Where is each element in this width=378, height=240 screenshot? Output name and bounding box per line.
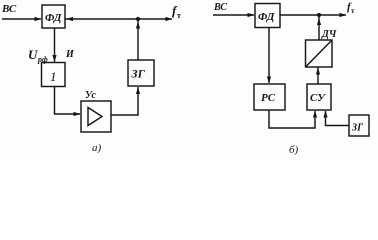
svg-text:ЗГ: ЗГ	[351, 123, 364, 134]
svg-text:ФД: ФД	[45, 12, 62, 24]
svg-text:т: т	[177, 11, 181, 20]
svg-text:ФД: ФД	[258, 11, 275, 23]
svg-text:U: U	[28, 47, 38, 62]
svg-text:ВС: ВС	[213, 2, 227, 13]
svg-text:т: т	[351, 7, 355, 15]
svg-text:ЗГ: ЗГ	[131, 67, 146, 81]
svg-text:б): б)	[289, 144, 299, 156]
svg-text:И: И	[65, 49, 75, 60]
svg-text:ДЧ: ДЧ	[321, 29, 337, 40]
svg-text:рф: рф	[37, 55, 48, 64]
svg-text:СУ: СУ	[310, 92, 326, 104]
svg-text:Ус: Ус	[85, 90, 96, 101]
svg-text:1: 1	[50, 69, 57, 84]
svg-text:РС: РС	[261, 92, 276, 104]
svg-text:ВС: ВС	[1, 3, 17, 15]
svg-text:а): а)	[92, 142, 102, 154]
